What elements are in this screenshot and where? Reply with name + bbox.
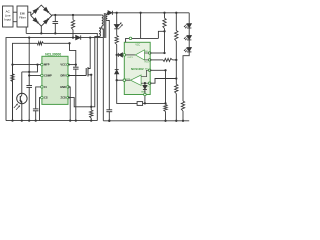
- jumper J1 box: [137, 102, 143, 106]
- diode output D2: [108, 11, 112, 15]
- pin VCC: [67, 63, 70, 66]
- pin OUT2: [123, 79, 126, 82]
- node MFP divider: [11, 63, 13, 65]
- pin ZCD: [67, 96, 70, 99]
- node R7 to divider mid: [175, 59, 177, 61]
- wire line sense upper loop: [6, 38, 73, 121]
- resistor line sense R2: [37, 42, 43, 45]
- transformer T1 secondary winding: [106, 15, 107, 21]
- wire opto collector: [22, 65, 38, 72]
- pin Ct: [41, 86, 44, 89]
- svg-text:NCS1002: NCS1002: [131, 67, 144, 71]
- capacitor COMP C2: [26, 85, 32, 87]
- transformer T1 primary winding: [52, 14, 102, 16]
- capacitor Ct C3: [33, 108, 39, 110]
- svg-text:OUT1: OUT1: [127, 57, 133, 59]
- node VCC rail tap: [139, 12, 141, 14]
- LED LED2: [187, 36, 191, 40]
- wire primary return rail: [26, 33, 97, 120]
- op-amp U2B input wires: [141, 70, 150, 76]
- wire secondary ground rail: [103, 120, 189, 122]
- wire opto branch to secondary gnd link: [117, 80, 137, 103]
- pin COMP: [41, 74, 44, 77]
- op-amp U2B: [124, 79, 130, 81]
- wire drain staircase: [102, 29, 104, 121]
- pin OUT1: [123, 54, 126, 57]
- node comp vertical tap: [28, 36, 30, 38]
- pin MFP: [41, 63, 44, 66]
- svg-text:Input: Input: [4, 18, 11, 22]
- node NCS ground: [144, 102, 146, 104]
- wire secondary return: [107, 21, 109, 110]
- wire line sense lower loop: [12, 65, 14, 121]
- svg-text:MFP: MFP: [44, 63, 50, 67]
- svg-text:NCL30000: NCL30000: [45, 52, 61, 56]
- node OUT1 junction: [116, 54, 118, 56]
- transformer T1 aux winding: [99, 28, 101, 37]
- wire ZCD to sense node: [68, 98, 91, 107]
- wire GND to rail: [68, 87, 70, 121]
- pin IN2+: [148, 82, 151, 85]
- diode OUT1 D5: [117, 53, 119, 57]
- node IN2+ diode tap: [144, 82, 146, 84]
- wire AC to EMI lower: [13, 21, 17, 23]
- wire primary to aux jog: [99, 26, 102, 28]
- node opto branch: [36, 63, 38, 65]
- resistor LED shunt R11: [181, 101, 184, 111]
- resistor opto R5: [115, 36, 118, 45]
- diode U2 clamp D7: [144, 83, 146, 85]
- node bulk cap junction: [54, 14, 56, 16]
- svg-text:CS: CS: [44, 96, 48, 100]
- LED optocoupler U3 emitter diode: [114, 25, 119, 29]
- resistor divider2 lower R9: [175, 60, 177, 84]
- LED string load: [188, 13, 190, 24]
- pin IN1-: [148, 52, 151, 55]
- pin DRV: [67, 74, 70, 77]
- IC U2 NCS1002 body: [124, 42, 150, 94]
- wire VCC jog to divider: [158, 31, 164, 38]
- node IN1- junction: [163, 52, 165, 54]
- wire output rail: [117, 12, 190, 14]
- AC line input block: [3, 6, 14, 27]
- svg-text:ZCD: ZCD: [61, 96, 66, 100]
- pin GND: [67, 86, 70, 89]
- diode OUT2 blocking D6: [115, 69, 119, 71]
- wire IN1+ with resistor R7: [150, 59, 163, 61]
- capacitor VCC C4: [75, 65, 77, 68]
- svg-text:Filter: Filter: [19, 16, 26, 20]
- wire COMP feedback vertical: [28, 38, 30, 86]
- pin CS: [41, 96, 44, 99]
- node bulk cap to return: [54, 32, 56, 34]
- wire AC to EMI upper: [13, 11, 17, 13]
- opto incoming light arrows: [14, 104, 18, 108]
- wire Ct to cap: [36, 87, 42, 109]
- wire opto branch to OUT2: [116, 55, 118, 70]
- svg-text:COMP: COMP: [44, 74, 52, 78]
- wire secondary top to output diode: [106, 13, 109, 15]
- wire IN1- to divider: [150, 52, 165, 54]
- LED LED1: [187, 24, 191, 28]
- node IN2- junction: [164, 69, 166, 71]
- node startup resistor tap: [72, 14, 74, 16]
- optocoupler U3 phototransistor: [17, 93, 27, 103]
- IC U1 NCL30000 body: [42, 56, 68, 104]
- node IN2+ junction: [175, 77, 177, 79]
- node OUT2 junction: [116, 79, 118, 81]
- wire primary ground rail: [6, 120, 97, 122]
- schematic background: [0, 0, 194, 127]
- pin IN2-: [148, 69, 151, 72]
- bridge diode lower-left: [33, 18, 38, 23]
- resistor sense R4: [90, 110, 93, 118]
- op-amp U2A: [124, 54, 135, 56]
- wire IN2- vertical: [165, 70, 167, 104]
- wire OUT2 to IC: [117, 79, 125, 81]
- node output positive: [116, 12, 118, 14]
- svg-text:DRV: DRV: [60, 74, 66, 78]
- wire EMI bottom to return rail: [25, 27, 27, 33]
- wire DRV to gate: [68, 75, 86, 77]
- op-amp U2A input wires: [145, 52, 150, 54]
- bridge diode upper-right: [44, 7, 49, 12]
- wire MFP to IC: [13, 64, 42, 66]
- wire EMI to bridge upper: [28, 12, 31, 15]
- bridge diode lower-right: [44, 19, 49, 24]
- resistor MFP lower R3: [12, 65, 14, 74]
- svg-text:Ct: Ct: [44, 85, 47, 89]
- wire opto LED branch: [116, 13, 118, 25]
- wire VCC U2 supply: [126, 38, 159, 42]
- wire VCC node: [68, 64, 76, 66]
- pin GND U2: [144, 93, 147, 96]
- bridge diode upper-left: [33, 9, 38, 14]
- wire COMP to cap: [29, 75, 42, 77]
- bridge rectifier BR1: [31, 5, 52, 26]
- node divider2 top tap: [175, 12, 177, 14]
- capacitor output C5: [106, 109, 112, 111]
- EMI filter block: [17, 6, 28, 27]
- wire LED return: [183, 52, 189, 101]
- resistor startup R1: [72, 15, 74, 20]
- node bridge return: [40, 32, 42, 34]
- svg-text:VCC: VCC: [135, 45, 140, 47]
- node drain: [89, 36, 91, 38]
- wire bridge negative to return rail: [40, 26, 42, 33]
- wire VCC feed staircase: [68, 42, 70, 44]
- wire opto emitter to ground: [21, 104, 23, 121]
- capacitor bulk C1: [53, 21, 59, 23]
- wire IN2- sense: [150, 69, 166, 71]
- transformer T1 core: [103, 13, 105, 38]
- LED LED3: [187, 48, 191, 52]
- node divider top tap: [163, 12, 165, 14]
- wire aux winding to ZCD: [91, 37, 99, 107]
- svg-text:VCC: VCC: [60, 63, 66, 67]
- wire bulk cap stub: [54, 15, 56, 22]
- pin IN1+: [148, 59, 151, 62]
- svg-text:GND: GND: [60, 85, 66, 89]
- resistor divider top R6: [164, 13, 166, 18]
- wire CS to ground: [40, 98, 42, 121]
- pin VCC U2 supply: [129, 37, 132, 40]
- resistor divider2 upper R8: [175, 13, 177, 31]
- diode snubber D1: [73, 37, 76, 39]
- transistor Q1 MOSFET: [85, 68, 87, 76]
- node snubber: [72, 36, 74, 38]
- wire IN2+ sense: [150, 79, 177, 84]
- wire VCC from output rail: [140, 13, 142, 39]
- resistor sense filter R10: [164, 105, 167, 112]
- node ZCD sense: [90, 106, 92, 108]
